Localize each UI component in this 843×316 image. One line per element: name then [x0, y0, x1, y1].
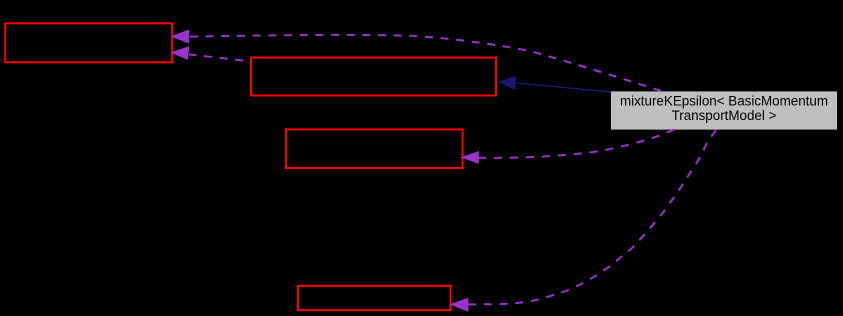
- svg-text:mixtureKEpsilon< BasicMomentum: mixtureKEpsilon< BasicMomentum: [620, 94, 828, 109]
- svg-text:TransportModel >: TransportModel >: [672, 108, 777, 123]
